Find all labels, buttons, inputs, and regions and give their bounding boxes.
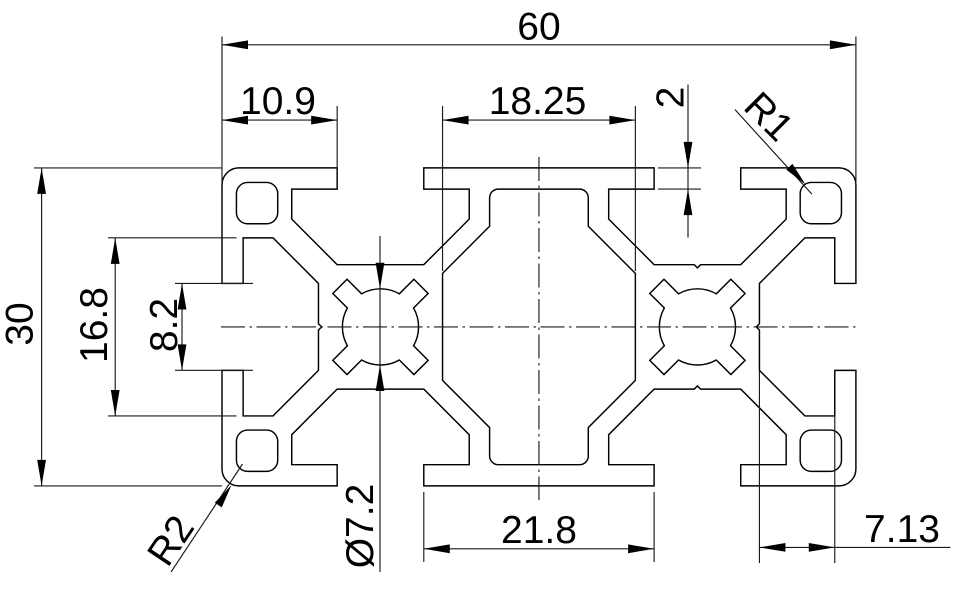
svg-text:7.13: 7.13: [864, 508, 940, 551]
vertical centerline: [538, 157, 540, 500]
dimension 2 line: [687, 85, 689, 238]
right center bore with cross notches: [650, 279, 745, 374]
dimension diameter 7.2 line: [379, 236, 381, 572]
dimension 10.9 extension line: [336, 106, 338, 169]
svg-text:30: 30: [0, 302, 42, 345]
svg-text:8.2: 8.2: [143, 298, 186, 352]
left center bore with cross notches: [333, 279, 428, 374]
svg-text:10.9: 10.9: [240, 80, 316, 123]
svg-text:16.8: 16.8: [73, 287, 116, 363]
horizontal centerline: [221, 326, 857, 328]
svg-text:2: 2: [650, 87, 693, 109]
corner hole top-left: [236, 182, 277, 223]
corner hole bottom-left: [236, 430, 277, 471]
dimension 8.2 line: [181, 283, 183, 370]
leader R2: [171, 464, 243, 572]
dimension 2 extension lines: [658, 168, 701, 189]
corner hole top-right: [800, 182, 841, 223]
central octagonal cavity: [443, 189, 636, 465]
dimension 60 line: [222, 44, 856, 46]
dimension 21.8 extension lines: [424, 492, 654, 562]
dimension 18.25 line: [443, 119, 636, 121]
dimension 30 extension lines: [34, 168, 222, 486]
svg-text:21.8: 21.8: [501, 509, 577, 552]
dimension 18.25 extension lines: [443, 106, 636, 271]
dimension 30 line: [41, 168, 43, 486]
dimension 16.8 line: [114, 238, 116, 416]
svg-text:18.25: 18.25: [489, 80, 587, 123]
dimension 10.9 line: [222, 119, 337, 121]
svg-text:Ø7.2: Ø7.2: [339, 484, 382, 569]
dimension 21.8 line: [424, 548, 654, 550]
corner hole bottom-right: [800, 430, 841, 471]
dimension 16.8 extension lines: [108, 238, 237, 416]
dimension 7.13 line: [759, 546, 950, 548]
dimension 8.2 extension lines: [175, 283, 253, 370]
leader R1: [735, 110, 812, 195]
profile outer boundary with T-slots: [222, 168, 856, 486]
dimension 60 extension line left: [221, 37, 223, 238]
dimension 60 extension line right: [855, 37, 857, 186]
svg-text:60: 60: [517, 6, 560, 49]
dimension 7.13 extension lines: [759, 371, 834, 563]
